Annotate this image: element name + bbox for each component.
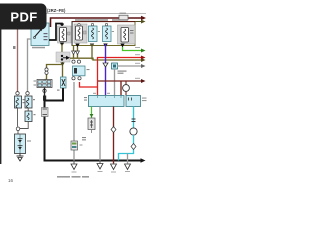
long gray wire down [73, 82, 75, 161]
relay block left labels [34, 81, 37, 82]
ignition switch box [31, 23, 49, 46]
injector4 top pin [105, 23, 107, 25]
olive wire from panel left edge [73, 46, 75, 59]
arrow below injector2 [75, 44, 79, 48]
small arrow on green wire [90, 114, 94, 118]
arrow below cold start injector [120, 44, 124, 48]
label above bus connector [120, 13, 127, 14]
diamond on teal lower wire [131, 144, 136, 150]
coil box 1 [15, 96, 22, 108]
red vertical and horizontal to right arrow [98, 58, 143, 96]
coil box 2 [25, 96, 32, 108]
pin labels above ECM [93, 93, 96, 94]
olive wire right arrow [141, 58, 146, 62]
resistor box below green wire [88, 118, 95, 130]
panel top maroon border [72, 21, 136, 22]
injector no.1 box [58, 26, 72, 43]
connector circles below relay [72, 77, 75, 80]
switch box caption [32, 47, 45, 49]
injector no.4 box [103, 26, 112, 42]
bus right end arrow [141, 158, 146, 162]
switch pin labels [44, 33, 48, 34]
injector3 top pin [91, 23, 93, 25]
igniter box 3 [25, 111, 32, 122]
distributor box [15, 134, 26, 154]
connector circle coil1 [16, 92, 19, 95]
label above green arrow [135, 47, 140, 48]
connector box on black wire [42, 108, 49, 117]
injector no.3 box [89, 26, 98, 42]
label on maroon wire [13, 46, 16, 49]
red wire right arrow [141, 56, 146, 60]
injector2 top pin [78, 23, 80, 25]
wire box3 down-left [19, 122, 29, 129]
panel line right arrow [141, 20, 146, 24]
diamond connector on dark red [111, 127, 116, 133]
title underline [46, 12, 146, 15]
ground arrow gray [99, 161, 101, 164]
red wire from relay to ECM [80, 82, 98, 87]
svg-text:(2RZ–FE): (2RZ–FE) [47, 8, 66, 13]
gray wire right arrow [141, 64, 146, 68]
ECM box right [126, 96, 141, 107]
arrow into injector1 [60, 24, 64, 28]
label right of ECM box2 [142, 98, 147, 99]
ECM box left [89, 96, 125, 107]
arrow below injector4 [103, 44, 107, 48]
connector circle coil2 [26, 92, 29, 95]
wire below circle [119, 135, 134, 161]
fusible link [43, 96, 46, 101]
connector circles above relay [72, 60, 75, 63]
dark red wire ECM down [113, 107, 115, 164]
olive wire from injector2 [77, 47, 79, 59]
green wire below ECM [91, 107, 93, 119]
teal wire ECM down [133, 107, 135, 128]
stem to distributor [17, 131, 19, 135]
gray wire from connector right [117, 65, 142, 67]
connector box on top bus [119, 15, 128, 20]
top dark red bus wire [51, 18, 142, 27]
olive branch to relay block [47, 65, 63, 69]
label above gray arrow [135, 63, 140, 64]
gray wire from switch [28, 39, 32, 92]
gray wire ECM to ground [99, 107, 101, 161]
stub and ground arrow right [127, 154, 129, 164]
injector panel [72, 22, 135, 46]
olive wire inj1 to junction box [61, 44, 63, 52]
check engine lamp circle [125, 81, 127, 96]
check connector square [112, 63, 118, 69]
relay block fuse grid [37, 80, 52, 88]
panel left dark border [72, 21, 73, 46]
connector bars on teal [132, 119, 136, 122]
connector circle below relay block [43, 89, 46, 92]
top bus right arrow [141, 16, 146, 20]
inj3 wire joining olive line [91, 44, 93, 60]
label left of gray wire [82, 137, 86, 138]
labels under ground arrows [72, 172, 77, 173]
dark red right arrow [141, 79, 146, 83]
olive horizontal wire to right arrow [70, 58, 142, 60]
ground below distributor [19, 154, 21, 157]
purple wire injector4 to ECM [105, 44, 107, 96]
label above dark red arrow [135, 78, 140, 79]
panel top label text [75, 19, 108, 20]
ground arrow dark red [111, 164, 117, 170]
injector no.2 box [74, 24, 87, 43]
oxygen sensor circle [130, 128, 137, 135]
connector triangle on purple wire [103, 63, 108, 67]
ECM left label [84, 97, 87, 98]
dark red horizontal wire [98, 80, 142, 82]
gray wire from connector down to ECM [114, 69, 116, 96]
circuit opening relay box [73, 66, 86, 76]
junction box below injector1 [56, 52, 70, 62]
page left edge scan line [0, 28, 1, 164]
olive wire junction to N box [62, 62, 64, 77]
wire coil2 to box3 [27, 108, 29, 111]
open triangle connector on panel-edge wire [72, 51, 76, 55]
page background [0, 0, 149, 198]
dark red tap to ECM [120, 81, 122, 96]
green wire cold start to right arrow [123, 47, 143, 51]
bottom caption [57, 176, 70, 178]
green wire right arrow [141, 49, 146, 53]
open triangle connector on injector2 wire [76, 51, 80, 55]
arrow below injector1 [60, 43, 64, 47]
wire coil1 down [17, 108, 19, 127]
N box (noise filter) [61, 77, 67, 88]
label above red arrow [135, 54, 140, 55]
ground arrow left [73, 161, 75, 165]
arrow below injector3 [90, 44, 94, 48]
thick black ground wire [45, 88, 142, 161]
black wire switch to injector1 [49, 24, 62, 41]
panel extension line to right arrow [135, 21, 142, 22]
cold start injector box [118, 25, 136, 44]
connector circles on branch [45, 68, 48, 71]
connector box on gray wire [71, 141, 78, 150]
PDF badge [0, 4, 47, 30]
maroon wire left [17, 28, 19, 92]
small arrow on olive wire [60, 63, 64, 67]
svg-text:PDF: PDF [10, 9, 37, 24]
connector circle distributor [16, 127, 20, 131]
switch symbol [35, 30, 42, 38]
label under check connector [118, 71, 127, 72]
svg-text:16: 16 [8, 178, 14, 183]
